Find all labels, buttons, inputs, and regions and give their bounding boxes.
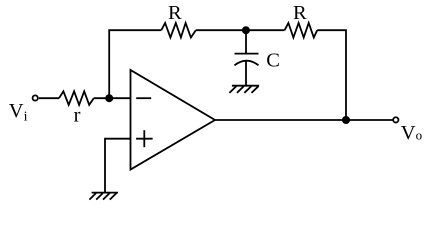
resistor R2 (value R) <box>285 23 318 38</box>
svg-text:Vi: Vi <box>9 100 28 125</box>
capacitor C <box>235 54 259 66</box>
op-amp U1 <box>131 70 216 170</box>
svg-text:r: r <box>74 105 81 127</box>
ground (below op-amp non-inverting input) <box>89 193 118 200</box>
svg-text:Vo: Vo <box>401 122 422 144</box>
wire op-amp output to terminal Vo <box>215 119 393 121</box>
resistor R1 (value R) <box>161 23 196 38</box>
junction node A (inverting input) <box>105 94 113 102</box>
op-amp inverting input marker (minus) <box>136 97 151 99</box>
svg-text:R: R <box>168 2 182 24</box>
junction node B <box>242 26 250 34</box>
junction node at output (feedback tap) <box>342 116 350 124</box>
wire non-inverting input to ground <box>105 139 131 193</box>
wire node B to R2 <box>246 29 285 31</box>
ground (below capacitor C) <box>229 86 259 93</box>
wire node B down to capacitor C <box>245 30 247 53</box>
wire R2 to output node via top-right corner <box>317 30 346 120</box>
wire Vi terminal to resistor r <box>39 97 59 99</box>
op-amp non-inverting input marker (plus) <box>136 130 153 147</box>
terminal Vi <box>33 95 38 100</box>
wire feedback riser from node A up and to R1 <box>109 30 161 98</box>
resistor r <box>59 91 94 105</box>
svg-text:R: R <box>293 2 307 24</box>
wire R1 to node B <box>196 29 246 31</box>
wire r to op-amp inverting input <box>94 97 131 99</box>
terminal Vo <box>393 117 398 122</box>
wire capacitor C to ground <box>245 61 247 86</box>
svg-text:C: C <box>266 50 280 72</box>
